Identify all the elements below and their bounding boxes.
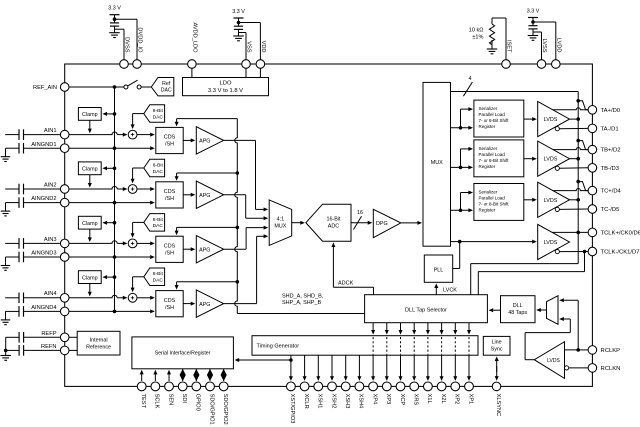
wire SHD/SHP timing bus (vertical) — [235, 119, 238, 314]
svg-text:LVDS: LVDS — [544, 198, 558, 204]
svg-text:CDS: CDS — [164, 189, 176, 195]
regulator LDO — [183, 78, 269, 96]
decoupling capacitor (analog) — [234, 25, 243, 27]
wire SHD/SHP to CDS top (channel 3) — [177, 226, 238, 228]
svg-text:DAC: DAC — [153, 169, 164, 175]
ground (digital) — [109, 32, 120, 34]
svg-text:XP2: XP2 — [454, 394, 460, 405]
wire AIN3 to summer (hop over bus) — [69, 241, 117, 244]
svg-text:AINGND1: AINGND1 — [31, 142, 56, 148]
node reference bus junction — [113, 85, 117, 89]
pin XP4 — [369, 382, 378, 391]
svg-text:GPIO0: GPIO0 — [195, 394, 201, 411]
svg-text:Timing Generator: Timing Generator — [257, 343, 300, 349]
pin LVDD — [552, 60, 561, 69]
wire SHD/SHP to CDS top (channel 4) — [177, 281, 238, 283]
wire to pin SEN — [168, 372, 170, 381]
pin AIN4 — [60, 294, 69, 303]
wire LVDS3 complement output to pin TC-/D5 — [559, 208, 588, 210]
wire cap to ground (LVDS) — [532, 29, 534, 36]
wire summer to CDS (channel 4) — [137, 297, 152, 299]
wire LVDS1 true output to bus — [570, 118, 579, 120]
svg-text:XSH1: XSH1 — [317, 394, 323, 409]
pin XP2 — [451, 382, 460, 391]
pin XP3 — [382, 382, 391, 391]
resistor R-ISET 10k — [489, 24, 494, 45]
capacitor AIN2 coupling — [5, 188, 19, 190]
wire to pin SDO/GPIO1 — [209, 369, 211, 381]
pin SDI — [178, 382, 187, 391]
wire DLL tap output — [413, 323, 415, 332]
CDS/SH block (channel 1) — [156, 127, 183, 153]
svg-text:X1L: X1L — [426, 394, 432, 404]
pin TA+/D0 — [588, 106, 597, 115]
wire AIN4 external — [24, 297, 61, 299]
svg-text:REF_AIN: REF_AIN — [33, 85, 57, 91]
wire to pin XP1 — [468, 355, 470, 378]
svg-text:48 Taps: 48 Taps — [508, 310, 527, 316]
wire AIN3 external — [24, 242, 61, 244]
svg-text:ADC: ADC — [328, 224, 339, 230]
wire MUX to LVDS4 input — [458, 240, 462, 244]
capacitor REFP — [6, 336, 19, 338]
wire AINGND4 to CDS — [113, 310, 117, 314]
bus slash 4 — [463, 82, 472, 96]
wire VSS to LDO — [245, 68, 247, 77]
switch S1 (reference) — [124, 85, 128, 89]
clamp box (channel 4) — [78, 271, 101, 284]
capacitor REFN — [6, 349, 19, 351]
capacitor AINGND4 — [6, 310, 20, 312]
svg-text:Parallel Load: Parallel Load — [479, 112, 506, 117]
wire DAC to summer (channel 2) — [133, 167, 144, 169]
svg-text:DAC: DAC — [161, 88, 172, 94]
pin SEN — [165, 382, 174, 391]
svg-text:SDO/GPIO1: SDO/GPIO1 — [208, 394, 214, 425]
svg-text:MUX: MUX — [274, 224, 286, 230]
lvds driver LVDS 4 — [538, 224, 570, 259]
svg-text:XP3: XP3 — [385, 394, 391, 405]
svg-text:3.3 V: 3.3 V — [527, 8, 540, 14]
svg-text:AIN3: AIN3 — [44, 237, 57, 243]
svg-text:RCLKP: RCLKP — [601, 348, 621, 354]
pin TCLK+/CK0/D6 — [588, 228, 597, 237]
wire clamp to input (channel 2) — [89, 175, 91, 185]
ground (AINGND4) — [5, 311, 7, 320]
amplifier APG (channel 1) — [196, 127, 223, 154]
wire APG2 to MUX input 2 — [224, 194, 246, 196]
svg-text:Serializer: Serializer — [479, 106, 498, 111]
node REF ground junction — [4, 349, 8, 353]
svg-text:DAC: DAC — [153, 114, 164, 120]
capacitor AIN1 coupling — [5, 134, 19, 136]
wire LVDS3 true output to bus — [570, 199, 579, 201]
wire to pin XCP — [400, 355, 402, 378]
pin TC+/D4 — [588, 186, 597, 195]
3.3V supply bar (digital) — [110, 14, 120, 16]
svg-text:XSH4: XSH4 — [358, 394, 364, 409]
wire ADC to DPG (16-bit bus) — [351, 222, 370, 224]
pin TA-/D1 — [588, 124, 597, 133]
block Serial Interface/Register — [132, 337, 234, 369]
wire AVDD_LDO to LDO — [191, 68, 193, 77]
wire LVDS4 complement output to pin TCLK- — [559, 251, 588, 253]
wire CDS to APG (channel 2) — [183, 194, 193, 196]
wire DAC to summer (channel 4) — [133, 276, 144, 278]
wire LVDS2 true output to bus — [570, 158, 579, 160]
wire to pin SDI — [182, 369, 184, 381]
wire AINGND2 to CDS — [113, 201, 117, 205]
svg-text:Serial Interface/Register: Serial Interface/Register — [155, 351, 211, 357]
wire to pin XSH1 — [317, 355, 319, 378]
wire AINGND3 to CDS — [113, 255, 117, 259]
svg-text:AVDD_LDO: AVDD_LDO — [192, 23, 198, 54]
wire MUX to serializer 2 upper input — [459, 166, 463, 170]
svg-text:XCLR: XCLR — [303, 394, 309, 409]
dac 8-Bit DAC (channel 1) — [144, 105, 165, 123]
dac 8-Bit DAC (channel 2) — [144, 159, 165, 177]
wire CDS to APG (channel 1) — [183, 139, 193, 141]
pin XRS — [410, 382, 419, 391]
wire LVDS1 true output to pin TA+/D0 — [553, 108, 588, 110]
wire ISET resistor top to pin — [491, 18, 493, 24]
wire MUX to serializer 3 lower input — [451, 209, 471, 211]
wire to LVSS pin — [533, 31, 542, 33]
wire to pin XCLR — [304, 355, 306, 378]
wire to pin XSH4 — [358, 355, 360, 378]
svg-text:Clamp: Clamp — [82, 221, 98, 227]
svg-text:XP4: XP4 — [371, 394, 377, 405]
wire LVDS3 true output to pin TC+/D4 — [553, 189, 588, 191]
svg-text:/SH: /SH — [165, 250, 174, 256]
node VDD branch (LVDS) — [531, 20, 535, 24]
pin XLSYNC — [492, 382, 501, 391]
svg-text:APG: APG — [199, 193, 210, 199]
wire LVDS1 complement output to pin TA-/D1 — [559, 127, 588, 129]
wire MUX to serializer 1 upper input — [459, 126, 463, 130]
svg-text:Line: Line — [491, 340, 501, 346]
svg-text:DAC: DAC — [153, 223, 164, 229]
pin AINGND2 — [60, 198, 69, 207]
wire cap to ground (analog) — [238, 29, 240, 36]
pin TB+/D2 — [588, 145, 597, 154]
summing node (channel 3) — [128, 239, 137, 248]
wire to pin TEST — [141, 372, 143, 381]
pin AINGND4 — [60, 307, 69, 316]
amplifier APG (channel 4) — [196, 290, 223, 317]
wire to pin SCLK — [154, 372, 156, 381]
mux clock select — [547, 296, 559, 325]
wire to pin X1L — [427, 355, 429, 378]
wire CDS to APG (channel 4) — [183, 303, 193, 305]
wire XLSYNC bidirectional — [496, 359, 498, 372]
pin XP1 — [465, 382, 474, 391]
amplifier APG (channel 2) — [196, 181, 223, 208]
svg-text:SDO/GPIO2: SDO/GPIO2 — [222, 394, 228, 425]
wire ADCK to ADC — [373, 287, 375, 294]
svg-text:16: 16 — [357, 210, 363, 216]
svg-text:TCLK-/CK1/D7: TCLK-/CK1/D7 — [601, 250, 640, 256]
dac 8-Bit DAC (channel 3) — [144, 214, 165, 232]
wire DLL tap output — [441, 323, 443, 332]
svg-text:XRS: XRS — [413, 394, 419, 406]
wire DLL tap output — [372, 323, 374, 332]
wire PLL output to LVDS4 line — [453, 268, 460, 270]
wire summer to CDS (channel 1) — [137, 134, 152, 136]
svg-text:TB+/D2: TB+/D2 — [601, 148, 621, 154]
wire to VSS pin — [239, 32, 247, 34]
pin XCLR — [300, 382, 309, 391]
pin XSH1 — [314, 382, 323, 391]
svg-text:Serializer: Serializer — [479, 189, 498, 194]
svg-text:Ref: Ref — [162, 81, 171, 87]
wire SHD/SHP to CDS top (channel 2) — [177, 172, 238, 174]
svg-text:3.3 V: 3.3 V — [108, 6, 121, 12]
svg-text:REFN: REFN — [41, 344, 56, 350]
CDS/SH block (channel 2) — [156, 182, 183, 208]
decoupling capacitor (digital) — [110, 22, 119, 24]
summing node (channel 1) — [128, 130, 137, 139]
pin X1L — [424, 382, 433, 391]
pin REF_AIN — [60, 83, 69, 92]
svg-text:AIN4: AIN4 — [44, 291, 57, 297]
wire clamp feed (channel 4) — [105, 276, 115, 278]
pin X2L — [437, 382, 446, 391]
CDS/SH block (channel 4) — [156, 291, 183, 317]
capacitor AINGND2 — [6, 202, 20, 204]
ground (REF) — [5, 350, 7, 355]
svg-text:Sync: Sync — [491, 347, 503, 353]
wire AINGND4 external — [24, 310, 61, 312]
wire MUX to ADC — [292, 222, 303, 224]
wire summer to CDS (channel 3) — [137, 242, 152, 244]
svg-text:±1%: ±1% — [472, 35, 483, 41]
svg-text:TCLK+/CK0/D6: TCLK+/CK0/D6 — [601, 231, 640, 237]
wire GPIO3 to serial interface — [237, 359, 291, 361]
svg-text:CDS: CDS — [164, 243, 176, 249]
svg-text:LVSS: LVSS — [541, 38, 547, 52]
svg-text:Register: Register — [479, 124, 496, 129]
wire switch to Ref DAC — [141, 86, 151, 88]
clamp box (channel 3) — [78, 216, 101, 229]
wire to DVDD_IO pin — [115, 18, 138, 20]
wire LVDS2 true output to pin TB+/D2 — [553, 148, 588, 150]
amplifier DPG — [373, 209, 401, 237]
wire clamp to input (channel 1) — [89, 120, 91, 130]
svg-text:4:1: 4:1 — [277, 217, 285, 223]
svg-text:SEN: SEN — [167, 394, 173, 406]
capacitor AINGND1 — [6, 147, 20, 149]
svg-text:SCLK: SCLK — [154, 394, 160, 409]
wire LVDS receiver output to clock mux input 2 — [562, 318, 571, 320]
3.3V supply bar (LVDS) — [528, 17, 538, 19]
chip boundary — [65, 64, 593, 386]
svg-text:LVDS: LVDS — [544, 157, 558, 163]
wire bus tap to pin TA+/D0 — [576, 99, 580, 103]
wire 3.3V rail down (analog) — [238, 18, 240, 26]
wire DLL tap output — [386, 323, 388, 332]
wire DLL tap output — [468, 323, 470, 332]
svg-text:MUX: MUX — [431, 160, 443, 166]
wire DAC to summer (channel 1) — [133, 113, 144, 115]
svg-text:Clamp: Clamp — [82, 167, 98, 173]
wire to pin XST/GPIO3 — [290, 355, 292, 378]
pin ISET — [502, 60, 511, 69]
svg-text:Clamp: Clamp — [82, 112, 98, 118]
pin AINGND1 — [60, 144, 69, 153]
svg-text:DAC: DAC — [153, 278, 164, 284]
dac Ref DAC — [151, 78, 174, 96]
wire clamp to input (channel 4) — [89, 284, 91, 294]
block Internal Reference — [77, 331, 120, 355]
svg-text:3.3 V to 1.8 V: 3.3 V to 1.8 V — [208, 88, 243, 94]
wire clamp to input (channel 3) — [89, 229, 91, 239]
wire REF_AIN to switch — [69, 86, 124, 88]
pin VDD — [256, 60, 265, 69]
svg-text:8-Bit: 8-Bit — [153, 108, 164, 114]
svg-text:Internal: Internal — [90, 337, 108, 343]
svg-text:XLSYNC: XLSYNC — [495, 394, 501, 417]
wire REFN to internal reference — [69, 349, 77, 351]
lvds driver LVDS 1 — [538, 102, 570, 137]
CDS/SH block (channel 3) — [156, 236, 183, 262]
svg-text:ADCK: ADCK — [338, 281, 354, 287]
svg-text:TB-/D3: TB-/D3 — [601, 166, 620, 172]
wire AIN1 external — [24, 134, 61, 136]
ground (AINGND2) — [5, 203, 7, 212]
pin SDO/GPIO2 — [219, 382, 228, 391]
svg-text:Clamp: Clamp — [82, 275, 98, 281]
mux 4:1 MUX — [269, 200, 292, 246]
wire to VDD pin — [239, 22, 261, 24]
capacitor AIN3 coupling — [5, 242, 19, 244]
svg-text:4: 4 — [468, 76, 471, 82]
pin TCLK-/CK1/D7 — [588, 247, 597, 256]
pin SCLK — [151, 382, 160, 391]
wire serializer 1 to LVDS driver — [524, 118, 535, 120]
svg-text:DLL Tap Selector: DLL Tap Selector — [405, 307, 447, 313]
wire DLL 48 Taps to DLL Tap Selector — [491, 309, 500, 311]
wire to pin XP3 — [386, 355, 388, 378]
lvds driver LVDS 2 — [538, 141, 570, 176]
svg-text:Parallel Load: Parallel Load — [479, 152, 506, 157]
wire TCLK+ loopback to DLL Tap Selector — [577, 232, 579, 263]
node VDD branch (analog) — [237, 21, 241, 25]
wire VDD to LDO — [259, 68, 261, 77]
wire serializer 2 to LVDS driver — [524, 158, 535, 160]
wire LVDS2 complement output to pin TB-/D3 — [559, 167, 588, 170]
wire AINGND1 external — [24, 147, 61, 149]
wire MUX to serializer 3 upper input — [459, 209, 463, 213]
wire to DVSS pin — [115, 28, 125, 30]
wire summer to CDS (channel 2) — [137, 188, 152, 190]
block DLL Tap Selector — [365, 295, 488, 323]
svg-text:Reference: Reference — [86, 344, 111, 350]
svg-text:APG: APG — [199, 302, 210, 308]
wire MUX to serializer 1 lower input — [451, 127, 471, 129]
ground (analog) — [233, 35, 244, 37]
pin XSH3 — [341, 382, 350, 391]
svg-text:/SH: /SH — [165, 142, 174, 148]
wire DLL tap output — [400, 323, 402, 332]
svg-text:8-Bit: 8-Bit — [153, 271, 164, 277]
wire clamp feed (channel 3) — [105, 222, 115, 224]
svg-text:XSH2: XSH2 — [330, 394, 336, 409]
wire LVDS4 true output to pin TCLK+ — [552, 231, 588, 233]
svg-text:LVDS: LVDS — [544, 240, 558, 246]
serializer register block 3 — [474, 184, 524, 221]
wire DPG to output MUX — [401, 222, 420, 224]
svg-text:CDS: CDS — [164, 298, 176, 304]
svg-text:Register: Register — [479, 207, 496, 212]
pin XST/GPIO3 — [287, 382, 296, 391]
pin AIN2 — [60, 185, 69, 194]
pin TB-/D3 — [588, 164, 597, 173]
pin AINGND3 — [60, 253, 69, 262]
pin GPIO0 — [192, 382, 201, 391]
svg-text:DLL: DLL — [513, 303, 523, 309]
serializer register block 1 — [474, 100, 524, 137]
capacitor AINGND3 — [6, 256, 20, 258]
wire to LVDD pin — [533, 21, 556, 23]
wire clamp feed (channel 1) — [105, 113, 115, 115]
svg-text:PLL: PLL — [434, 267, 444, 273]
wire reference bus (vertical) — [114, 87, 116, 311]
wire RCLKP to clock mux input 1 — [562, 299, 579, 301]
clamp box (channel 2) — [78, 162, 101, 175]
svg-text:RCLKN: RCLKN — [601, 366, 621, 372]
svg-text:XST/GPIO3: XST/GPIO3 — [289, 394, 295, 424]
wire APG1 to MUX input 1 — [224, 139, 256, 141]
wire RCLKN to receiver — [569, 367, 588, 369]
svg-text:SDI: SDI — [181, 394, 187, 404]
svg-text:CDS: CDS — [164, 135, 176, 141]
wire 3.3V rail down (digital) — [114, 15, 116, 23]
pin DVDD_IO — [133, 60, 142, 69]
svg-text:AINGND2: AINGND2 — [31, 196, 56, 202]
svg-text:VSS: VSS — [246, 41, 252, 53]
amplifier APG (channel 3) — [196, 236, 223, 263]
svg-text:AINGND3: AINGND3 — [31, 251, 56, 257]
wire AINGND2 external — [24, 202, 61, 204]
svg-text:TA+/D0: TA+/D0 — [601, 108, 621, 114]
wire DLL tap output — [427, 323, 429, 332]
wire APG4 to MUX input 4 — [224, 303, 257, 305]
svg-text:TA-/D1: TA-/D1 — [601, 127, 619, 133]
pin RCLKN — [588, 364, 597, 373]
svg-text:VDD: VDD — [260, 41, 266, 53]
svg-text:7- or 8-Bit Shift: 7- or 8-Bit Shift — [479, 118, 510, 123]
pin XSH2 — [328, 382, 337, 391]
svg-text:LVDD: LVDD — [556, 38, 562, 53]
summing node (channel 4) — [128, 293, 137, 302]
svg-text:7- or 8-Bit Shift: 7- or 8-Bit Shift — [479, 158, 510, 163]
svg-text:TC-/D5: TC-/D5 — [601, 207, 620, 213]
decoupling capacitor (LVDS) — [528, 25, 537, 27]
pin VSS — [242, 60, 251, 69]
pin XSH4 — [355, 382, 364, 391]
clamp box (channel 1) — [78, 108, 101, 121]
lvds driver LVDS 3 — [538, 182, 570, 217]
wire SHD/SHP bus to DLL tap selector — [237, 313, 364, 315]
dac 8-Bit DAC (channel 4) — [144, 268, 165, 286]
pin XCP — [396, 382, 405, 391]
wire CDS to APG (channel 3) — [183, 248, 193, 250]
svg-text:X2L: X2L — [440, 394, 446, 404]
pin RCLKP — [588, 346, 597, 355]
wire APG3 to MUX input 3 — [224, 248, 247, 250]
wire to pin XSH2 — [331, 355, 333, 378]
